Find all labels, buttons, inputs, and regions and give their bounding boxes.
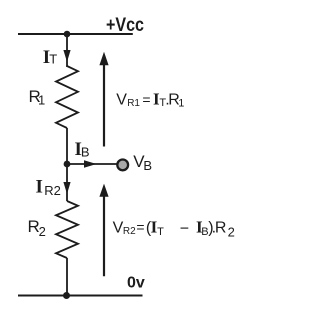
svg-text:−: − (180, 221, 189, 238)
svg-text:2: 2 (39, 224, 46, 239)
node: junction dot on bottom rail (63, 292, 70, 299)
arrow VR2 (voltage across R2, pointing up) (103, 195, 105, 276)
wire: from top rail down to R1 (66, 34, 68, 67)
terminal VB (grey circle) (117, 160, 128, 171)
svg-text:R2: R2 (44, 183, 61, 198)
wire: node B down to R2 (66, 164, 68, 201)
arrowhead: IR2 current arrow (down) (63, 182, 70, 194)
wire: R2 bottom to ground rail (66, 258, 68, 296)
svg-text:=: = (142, 91, 150, 107)
svg-text:T: T (49, 52, 57, 67)
arrow VR1 (voltage across R1, pointing up) (103, 64, 105, 147)
svg-text:1: 1 (178, 98, 184, 110)
node: junction dot on top rail (64, 31, 71, 38)
wire: R1 bottom to node B (66, 128, 68, 164)
arrowhead: IB current arrow (right) (84, 160, 97, 168)
svg-text:T: T (157, 226, 164, 238)
svg-text:I: I (36, 177, 43, 198)
svg-text:+Vcc: +Vcc (106, 15, 144, 36)
svg-text:R2: R2 (123, 226, 136, 237)
node B junction dot (64, 161, 71, 168)
wire: bottom 0v rail (18, 295, 143, 297)
wire: top +Vcc rail (18, 33, 133, 35)
svg-text:2: 2 (228, 225, 235, 240)
svg-text:=: = (136, 219, 144, 235)
svg-text:B: B (81, 145, 90, 160)
arrowhead: IT current arrow (down) (63, 50, 70, 62)
wire: node B to VB terminal (67, 163, 117, 165)
resistor R1 (56, 66, 78, 128)
svg-text:V: V (116, 92, 127, 109)
svg-text:0v: 0v (127, 275, 145, 292)
resistor R2 (56, 201, 78, 258)
svg-text:1: 1 (38, 93, 45, 108)
svg-text:R: R (215, 219, 227, 236)
svg-text:B: B (143, 158, 152, 173)
svg-text:R1: R1 (127, 98, 140, 109)
